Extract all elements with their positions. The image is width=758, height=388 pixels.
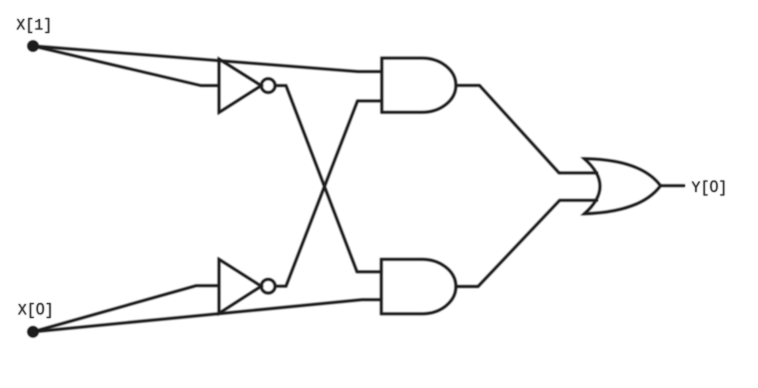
svg-text:X[0]: X[0]	[18, 301, 54, 320]
wire X[0] to bottom AND gate bottom input	[33, 300, 381, 332]
node X[0] input terminal dot	[27, 326, 39, 338]
inverter NOT1 output bubble	[261, 79, 275, 93]
AND gate A2 (bottom)	[381, 259, 456, 314]
svg-text:Y[0]: Y[0]	[691, 178, 727, 197]
crisp overlay pass of the schematic artwork	[33, 46, 685, 332]
crisp overlay of node X[1] dot	[28, 41, 38, 51]
wire OR gate output to label Y[0]	[661, 184, 686, 187]
node X[1] input terminal dot	[27, 40, 39, 52]
crisp overlay of node X[0] dot	[28, 327, 38, 337]
inverter NOT2 (bottom) triangle	[219, 259, 261, 313]
wire top inverter output to bottom AND gate top input (crossing wire)	[275, 86, 381, 272]
inverter NOT2 output bubble	[261, 279, 275, 293]
wire bottom inverter output to top AND gate bottom input (crossing wire)	[275, 101, 382, 286]
OR gate O1	[584, 159, 660, 214]
wire top AND gate output to OR gate top input	[456, 85, 598, 172]
wire bottom AND gate output to OR gate bottom input	[456, 200, 598, 286]
wire X[1] to top AND gate top input	[33, 46, 382, 72]
svg-text:X[1]: X[1]	[16, 17, 52, 35]
wire X[0] to bottom inverter input	[33, 286, 219, 332]
AND gate A1 (top)	[382, 58, 456, 112]
inverter NOT1 (top) triangle	[219, 59, 261, 113]
wire X[1] to top inverter input	[33, 46, 219, 86]
